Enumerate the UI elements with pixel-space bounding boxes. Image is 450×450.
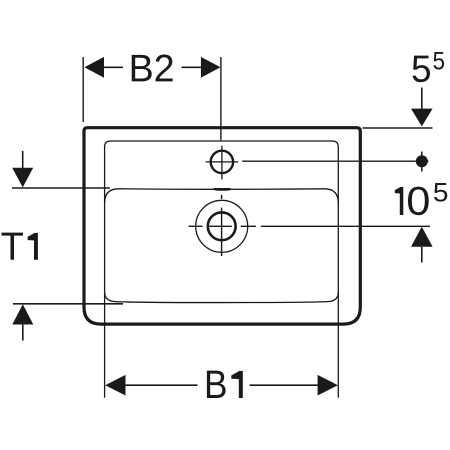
dim B2 left arrow	[84, 57, 104, 78]
dim B2 right tail line	[182, 66, 201, 68]
dim B2 right arrow	[201, 57, 221, 78]
dim B1 right tail line	[250, 384, 318, 386]
dim 10_5 up arrow	[411, 227, 433, 247]
tap hole crosshair vertical	[221, 146, 223, 180]
label T1	[2, 233, 38, 260]
dim 10_5 top reference line	[242, 160, 428, 162]
dim 5_5 arrow tail	[421, 88, 423, 111]
dim B2 right extension line	[220, 57, 222, 140]
label 10_5	[395, 187, 429, 216]
label B2	[132, 55, 173, 82]
label B1	[207, 371, 243, 398]
dim T1 bottom reference line	[13, 303, 123, 305]
drain crosshair horizontal left dash	[189, 225, 203, 227]
dim B1 right arrow	[318, 375, 338, 396]
drain crosshair horizontal center dash	[207, 225, 232, 227]
dim B1 right extension line	[337, 292, 339, 398]
dim T1 top reference line	[12, 187, 110, 189]
dim B2 left tail line	[104, 66, 123, 68]
drain inner circle	[208, 212, 236, 240]
overflow slot	[214, 188, 231, 191]
dim B1 left arrow	[105, 375, 125, 396]
basin rim inner line (deck)	[105, 141, 339, 303]
drain crosshair horizontal right dash	[241, 225, 256, 227]
dim 10_5 bottom reference line	[261, 225, 430, 227]
dim 10_5 dot tick	[421, 152, 423, 172]
dim T1 top arrow tail	[22, 151, 24, 170]
dim 10_5 dot	[416, 155, 428, 167]
tap hole crosshair horizontal	[206, 161, 239, 163]
drain crosshair vertical main	[221, 208, 223, 256]
drain crosshair vertical top tick	[221, 195, 223, 199]
dim 5_5 down arrow	[411, 109, 433, 127]
dim B2 left extension line	[82, 57, 84, 122]
dim T1 bottom arrow tail	[22, 325, 24, 341]
basin bowl top edge	[105, 189, 339, 203]
dim 5_5 reference line	[363, 127, 433, 129]
dim 10_5 arrow tail	[421, 247, 423, 263]
tap hole	[211, 151, 233, 173]
dim T1 up arrow	[12, 304, 33, 324]
label 5_5	[413, 56, 431, 83]
dim T1 down arrow	[12, 168, 33, 188]
drain outer circle	[196, 200, 248, 252]
basin outer outline	[84, 128, 360, 324]
dim B1 left tail line	[126, 384, 198, 386]
dim B1 left extension line	[104, 292, 106, 398]
